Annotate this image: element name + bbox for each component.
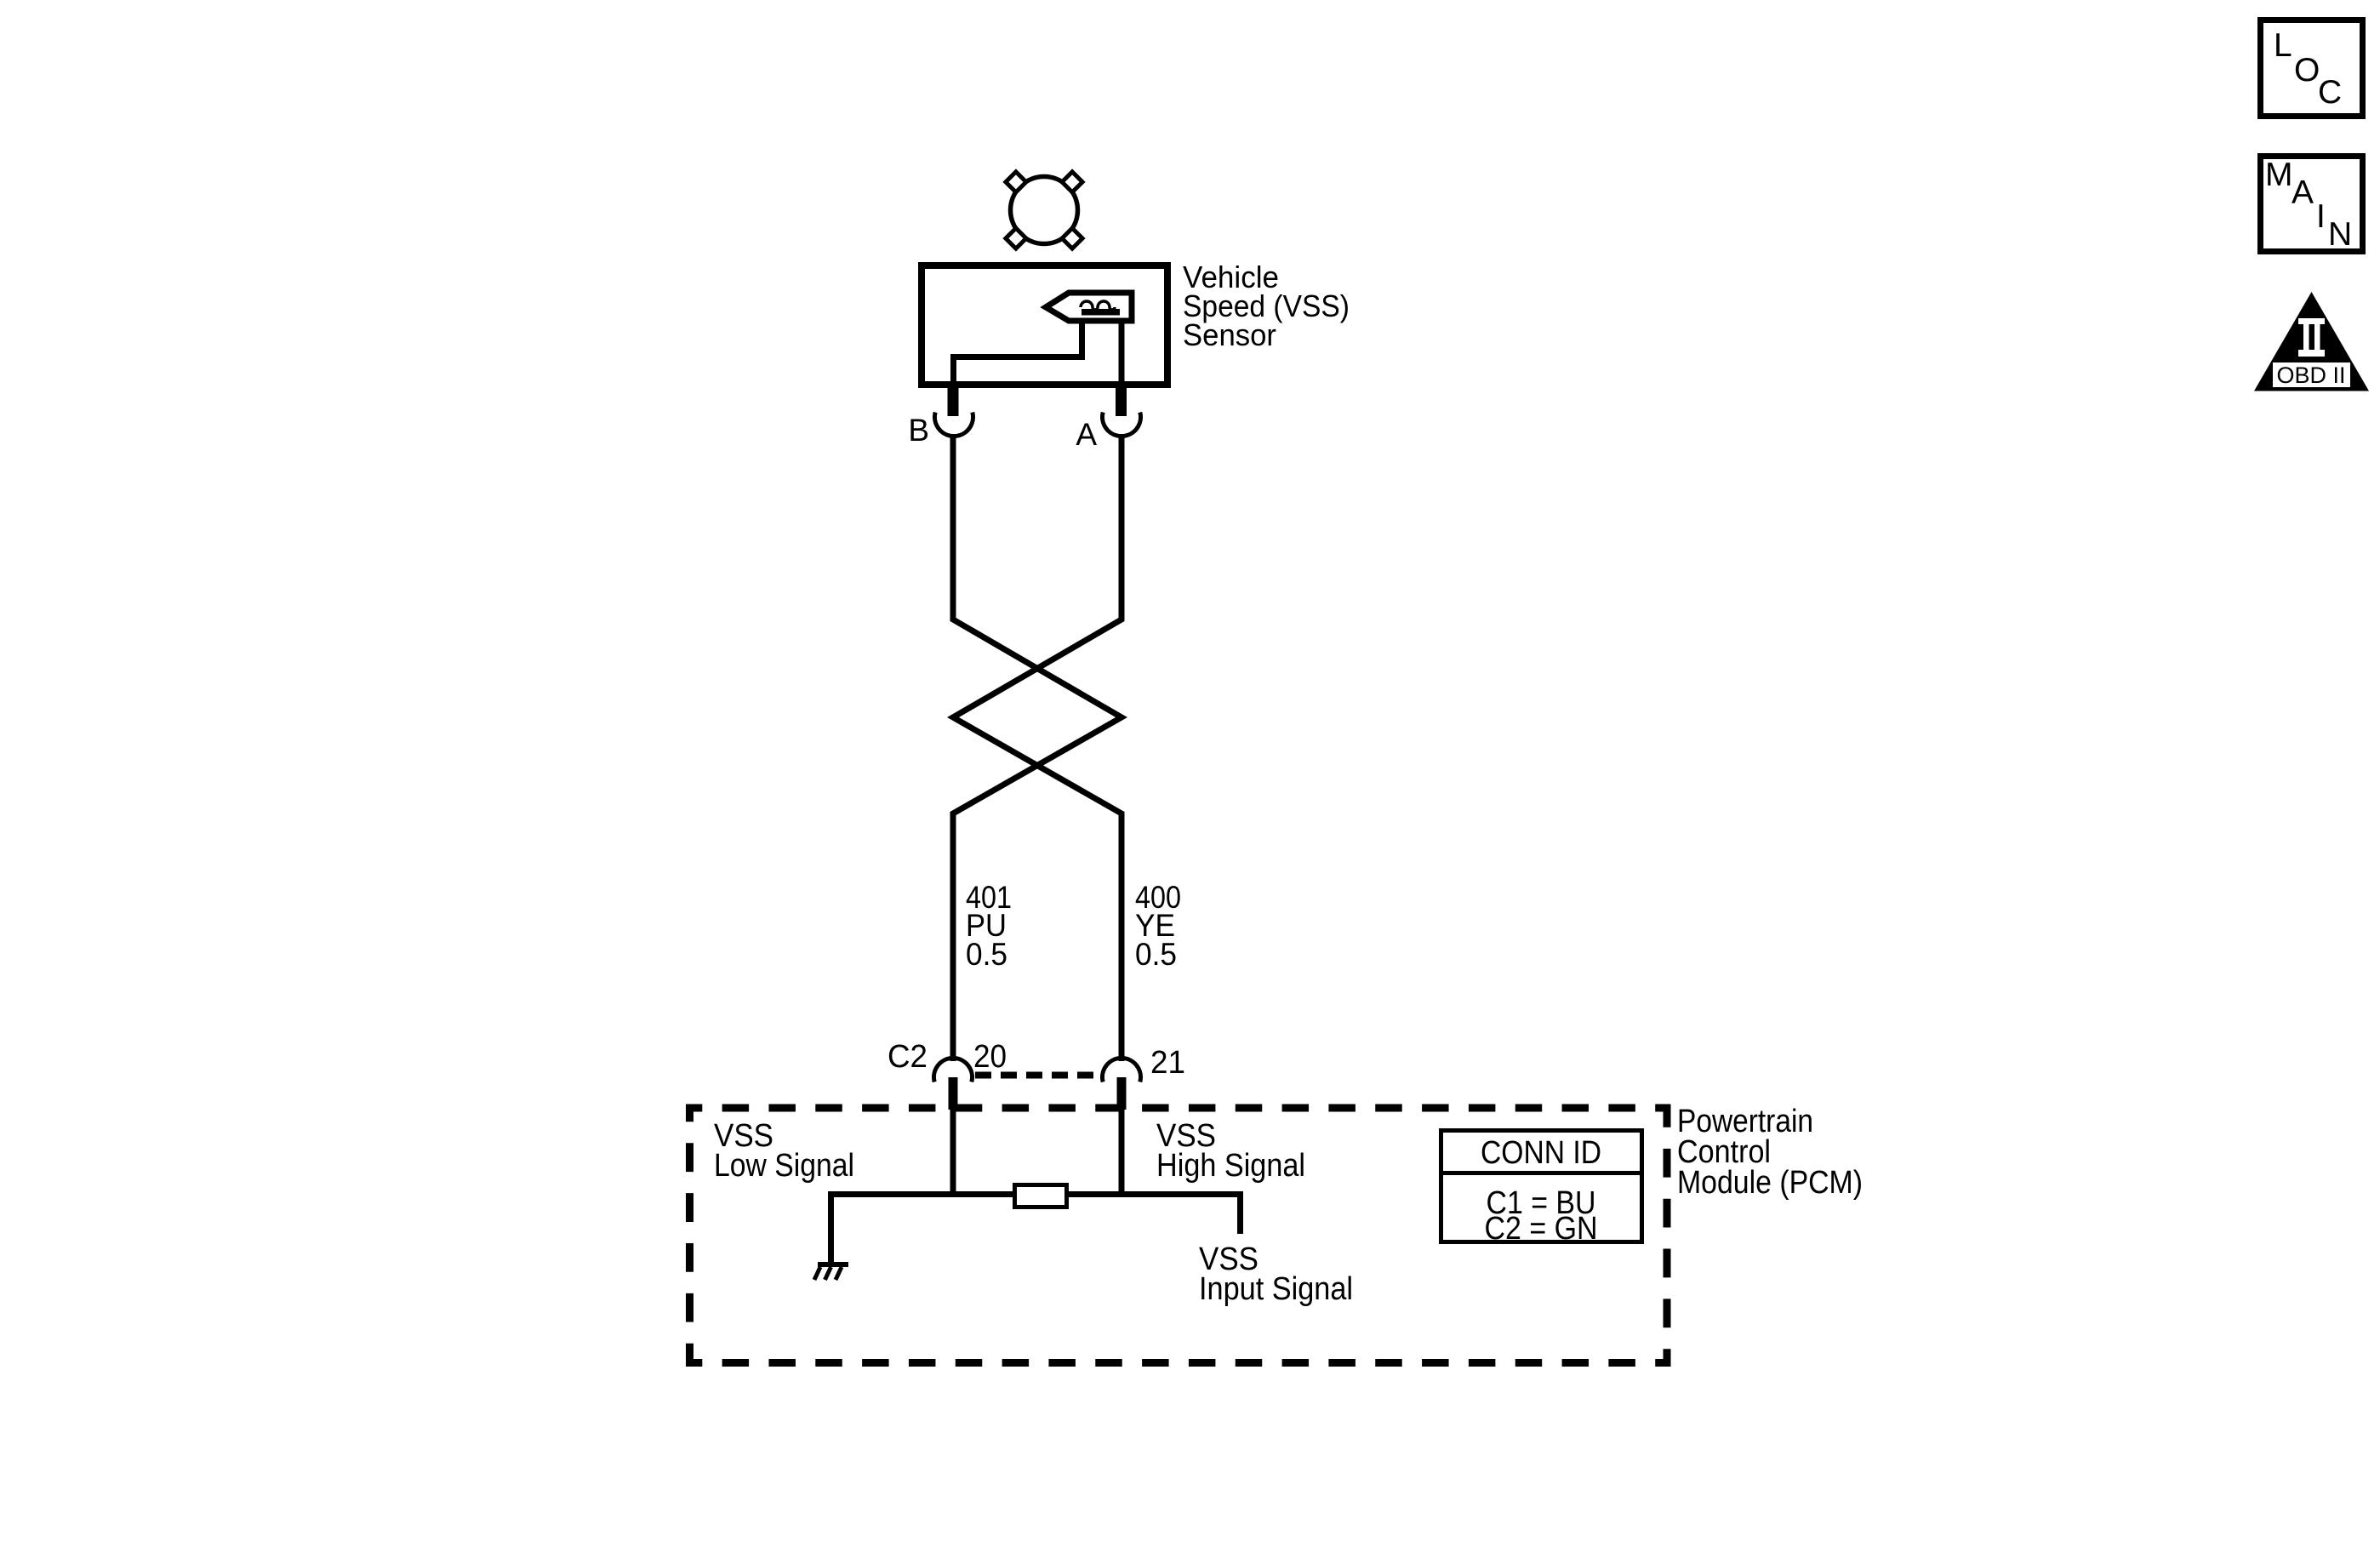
svg-text:C: C: [2318, 74, 2342, 111]
svg-text:C2 = GN: C2 = GN: [1485, 1211, 1598, 1247]
svg-text:20: 20: [973, 1039, 1007, 1075]
svg-text:Sensor: Sensor: [1183, 317, 1276, 352]
svg-text:A: A: [2292, 174, 2314, 211]
svg-text:OBD II: OBD II: [2276, 362, 2345, 388]
svg-text:CONN ID: CONN ID: [1481, 1135, 1601, 1171]
svg-text:Input Signal: Input Signal: [1199, 1271, 1353, 1307]
svg-text:A: A: [1076, 417, 1097, 452]
svg-text:B: B: [908, 413, 929, 448]
svg-text:Low Signal: Low Signal: [714, 1148, 854, 1184]
svg-text:I: I: [2316, 198, 2326, 235]
svg-text:M: M: [2265, 157, 2293, 193]
svg-text:C2: C2: [888, 1039, 927, 1075]
svg-text:0.5: 0.5: [1135, 937, 1177, 972]
svg-text:Module (PCM): Module (PCM): [1677, 1165, 1863, 1201]
svg-text:High Signal: High Signal: [1156, 1148, 1305, 1184]
svg-text:0.5: 0.5: [966, 937, 1007, 972]
svg-text:21: 21: [1150, 1045, 1185, 1081]
svg-text:N: N: [2328, 216, 2352, 253]
svg-text:O: O: [2294, 52, 2320, 88]
svg-text:L: L: [2274, 27, 2292, 64]
